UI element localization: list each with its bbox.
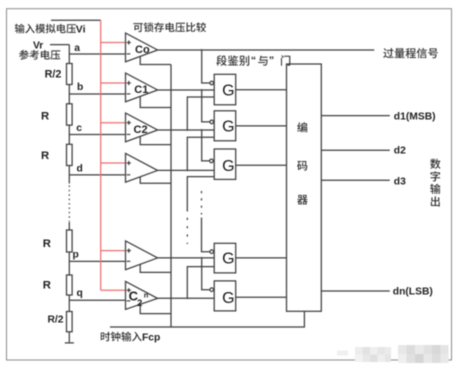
svg-text:n: n	[144, 291, 149, 300]
latin labels	[33, 23, 436, 343]
svg-text:R/2: R/2	[45, 69, 62, 81]
wire G3 lower input going down	[187, 177, 214, 212]
svg-text:d1(MSB): d1(MSB)	[394, 112, 436, 123]
svg-text:”: ”	[269, 55, 274, 67]
C5 plus	[127, 288, 131, 292]
text lbl_qi	[297, 195, 308, 205]
wire output d2	[321, 149, 390, 151]
C1 plus	[127, 81, 131, 85]
wire C1 output	[158, 89, 215, 91]
and-gate G3	[214, 149, 236, 179]
svg-text:R: R	[43, 238, 51, 250]
resistor R 4	[67, 275, 73, 295]
text lbl_shu2	[430, 184, 440, 194]
encoder box	[287, 64, 322, 311]
G5 inverting circle	[210, 288, 214, 292]
wire C2 clock stub	[140, 136, 171, 144]
resistor R/2 bottom	[67, 312, 73, 332]
wire Vi red bus vertical	[100, 20, 102, 290]
watermark mosaic	[337, 345, 449, 363]
svg-text:b: b	[77, 82, 83, 93]
comparator C2	[126, 113, 158, 142]
wire C5 output	[158, 297, 215, 299]
wire red stub to C3 +	[101, 162, 126, 164]
wire clock bus vertical	[170, 65, 172, 328]
and-gate G5	[214, 281, 236, 311]
wire C3 to G2 lower input	[187, 137, 214, 170]
and-gate G4	[214, 243, 236, 273]
junction C4-G5	[201, 257, 203, 259]
svg-text:a: a	[74, 43, 80, 54]
wire C3 output	[158, 169, 215, 171]
wire C0 output / over-range line	[158, 49, 375, 51]
text lbl_clkin	[101, 332, 142, 342]
junction C5-G4low	[186, 297, 188, 299]
wire C5 to G4 lower input	[187, 267, 214, 299]
wire G5 output	[236, 296, 287, 298]
svg-text:G: G	[222, 158, 234, 175]
wire C5 clock stub	[140, 304, 171, 313]
junction C1-G2	[201, 89, 203, 91]
wire output d3	[321, 179, 390, 181]
junction C3-G2low	[186, 169, 188, 171]
comparator C5	[126, 281, 158, 309]
node c tap wire	[69, 134, 126, 136]
svg-text:q: q	[77, 288, 83, 299]
wire Vi input	[51, 19, 101, 21]
text lbl_over	[383, 48, 438, 58]
wire C1 to G2 inverting input	[202, 90, 210, 122]
comparator C4	[126, 241, 158, 270]
wire G3 lower input dotted continuation	[186, 218, 188, 244]
wire C4 to G5 inverting input	[202, 258, 210, 290]
wire G2 output	[236, 125, 287, 127]
resistor R 1	[67, 104, 73, 125]
svg-text:C2: C2	[134, 124, 148, 136]
wire ladder dotted continuation	[68, 186, 70, 222]
text lbl_bian	[297, 122, 307, 132]
text lbl_men	[281, 55, 290, 65]
wire red stub to C2 +	[101, 122, 126, 124]
and-gate G2	[214, 111, 236, 141]
svg-text:Co: Co	[135, 44, 150, 56]
C0 plus	[127, 40, 131, 44]
svg-text:Vi: Vi	[76, 23, 86, 35]
svg-text:R/2: R/2	[48, 314, 64, 325]
text lbl_chu	[431, 196, 440, 206]
text lbl_ma	[297, 161, 307, 171]
svg-text:G: G	[222, 119, 234, 136]
G3 inverting circle	[210, 159, 214, 163]
svg-text:R: R	[41, 150, 49, 162]
svg-text:G: G	[222, 251, 234, 268]
G2 inverting circle	[210, 120, 214, 124]
wire C0 to G1 inverting input	[202, 50, 210, 83]
svg-text:c: c	[76, 123, 82, 134]
wire clock input Fcp	[110, 311, 304, 327]
G4 inverting circle	[210, 250, 214, 254]
wire red stub to C4 +	[101, 250, 126, 252]
wire G4 output	[236, 257, 287, 259]
wire output dn	[321, 290, 390, 292]
and-gate G1	[214, 74, 236, 105]
C1 minus	[127, 93, 131, 95]
C3 plus	[127, 161, 131, 165]
wire to G4 inverting input	[202, 218, 210, 252]
ground	[65, 342, 74, 344]
comparator C1	[126, 73, 158, 102]
svg-text:R: R	[41, 111, 49, 123]
node d tap wire	[69, 174, 126, 176]
text lbl_latch	[133, 22, 206, 32]
resistor R 2	[67, 144, 73, 165]
wire C2 to G3 inverting input	[202, 130, 210, 161]
wire G3 output	[236, 164, 287, 166]
svg-text:2: 2	[137, 298, 142, 309]
comparator C0	[126, 33, 158, 62]
svg-text:R: R	[43, 280, 51, 292]
C2 plus	[127, 121, 131, 125]
text lbl_yu	[258, 56, 268, 66]
wire C4 clock stub	[140, 264, 171, 272]
G1 inverting circle	[210, 81, 214, 85]
text lbl_vi	[15, 24, 76, 34]
svg-text:C1: C1	[134, 84, 148, 96]
node p tap wire	[69, 260, 126, 262]
C4 plus	[127, 249, 131, 253]
C4 minus	[127, 260, 131, 262]
wire red stub to C5 +	[101, 289, 126, 291]
svg-text:d3: d3	[394, 177, 406, 188]
gate G letters	[222, 83, 234, 307]
resistor R/2 top	[67, 64, 73, 85]
wire C4 output	[158, 257, 215, 259]
wire resistor ladder vertical	[68, 45, 70, 184]
text lbl_seg1	[216, 55, 249, 66]
comparator C3	[126, 153, 158, 182]
wire G1 output	[236, 89, 287, 91]
svg-text:“: “	[251, 55, 256, 67]
wire Vr to ladder top	[50, 44, 69, 46]
C3 minus	[127, 174, 131, 176]
node b tap wire	[69, 93, 126, 95]
junction C0-G1	[201, 49, 203, 51]
text lbl_shu	[430, 159, 440, 169]
wire red stub to C1 +	[101, 82, 126, 84]
svg-text:p: p	[73, 250, 79, 261]
C5 minus	[127, 300, 131, 302]
wire dotted feed to G4 inverting input	[201, 191, 203, 215]
node a tap wire	[69, 53, 126, 55]
svg-text:d2: d2	[394, 146, 406, 157]
resistor R 3	[67, 230, 73, 252]
C2 minus	[127, 133, 131, 135]
wire C3 clock stub	[140, 177, 171, 184]
plus-minus marks of comparators	[127, 40, 131, 301]
wire output d1	[321, 115, 390, 117]
text lbl_zi	[431, 171, 441, 181]
junction C2-G3	[201, 129, 203, 131]
wire C2 output	[158, 129, 215, 131]
wire red stub to C0 +	[101, 42, 126, 44]
svg-text:dn(LSB): dn(LSB)	[393, 287, 433, 298]
svg-text:Fcp: Fcp	[142, 333, 160, 344]
text lbl_ck	[19, 50, 60, 60]
svg-text:G: G	[222, 83, 234, 100]
junction C2-G1low	[186, 129, 188, 131]
wire C1 clock stub	[140, 96, 171, 107]
C0 minus	[127, 53, 131, 55]
wire ladder vertical lower	[68, 222, 70, 342]
node q tap wire	[69, 299, 126, 301]
chinese labels as paths	[15, 22, 441, 341]
svg-text:Vr: Vr	[33, 40, 43, 51]
svg-text:d: d	[77, 164, 83, 175]
wire C2 to G1 lower input	[187, 97, 214, 130]
svg-text:G: G	[222, 290, 234, 307]
wire C0 clock stub	[140, 56, 171, 64]
